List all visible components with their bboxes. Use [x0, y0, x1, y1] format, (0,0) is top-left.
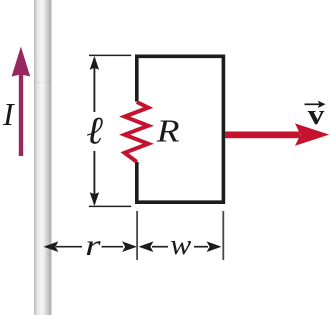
svg-text:ℓ: ℓ [86, 109, 103, 152]
svg-text:R: R [156, 113, 180, 149]
svg-text:v: v [308, 99, 325, 131]
svg-text:I: I [2, 96, 15, 132]
svg-text:r: r [85, 229, 101, 262]
svg-text:w: w [170, 230, 191, 261]
